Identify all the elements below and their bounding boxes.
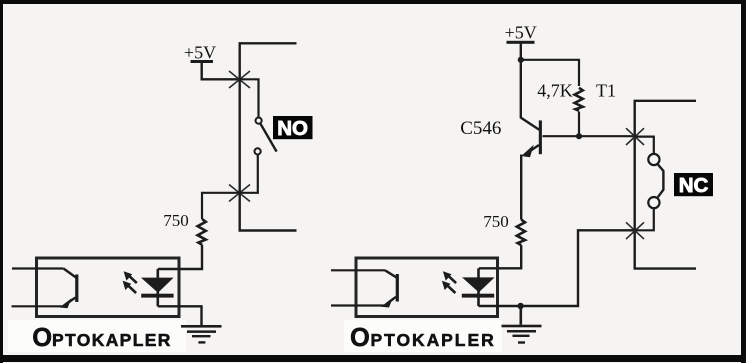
svg-text:O: O bbox=[32, 324, 52, 352]
wire node to resistor (left) bbox=[202, 193, 239, 219]
svg-text:+5V: +5V bbox=[184, 43, 216, 63]
optocoupler U1 package (left) bbox=[37, 258, 180, 317]
junction dot ground node (right) bbox=[517, 303, 523, 309]
resistor R1 value 750 bbox=[163, 211, 206, 245]
wire +5V stem (right) bbox=[520, 44, 522, 60]
ground (left) bbox=[181, 325, 222, 344]
transistor Q1 C546 bbox=[460, 118, 542, 158]
wire switch branch top (left) bbox=[239, 79, 259, 117]
light arrows (right U2) bbox=[442, 271, 456, 293]
phototransistor (left U1) bbox=[60, 269, 79, 309]
optocoupler U2 package (right) bbox=[356, 258, 498, 317]
wire resistor to LED anode (left) bbox=[158, 245, 202, 269]
wire emitter lead (right U2) bbox=[331, 304, 385, 306]
label OPTOKAPLER (left) bbox=[32, 324, 172, 352]
svg-text:PTOKAPLER: PTOKAPLER bbox=[52, 330, 172, 350]
resistor R3 value 750 (right) bbox=[483, 212, 525, 245]
wire +5V stem to node (left) bbox=[202, 63, 239, 80]
svg-text:4,7K: 4,7K bbox=[537, 81, 573, 101]
light arrows (left U1) bbox=[123, 271, 137, 293]
svg-text:O: O bbox=[350, 324, 370, 352]
wire emitter to resistor (right) bbox=[520, 155, 522, 220]
phototransistor (right U2) bbox=[381, 270, 399, 307]
wire collector lead (right U2) bbox=[331, 269, 385, 271]
junction X2 (right) bbox=[626, 222, 644, 239]
svg-text:C546: C546 bbox=[460, 118, 501, 139]
wire +5V to collector bbox=[520, 60, 522, 119]
ground (right) bbox=[502, 306, 542, 344]
wire LED cathode to ground (left) bbox=[158, 306, 202, 325]
label NO bbox=[273, 116, 313, 140]
wire ground node to relay return bbox=[521, 230, 635, 306]
wire NC branch bottom bbox=[635, 208, 654, 230]
wire top output (left) bbox=[240, 43, 297, 230]
power +5V (right) bbox=[505, 23, 537, 44]
label OPTOKAPLER (right) bbox=[350, 324, 496, 352]
junction dot base node bbox=[576, 133, 582, 139]
wire LED cathode to ground node (right) bbox=[479, 305, 521, 307]
wire base to relay node bbox=[543, 135, 635, 137]
junction X1 (right) bbox=[626, 128, 644, 145]
svg-text:PTOKAPLER: PTOKAPLER bbox=[371, 330, 496, 350]
junction X1 (left) bbox=[229, 71, 250, 88]
wire supply node to resistor 4,7K bbox=[521, 60, 579, 86]
junction dot supply node (right) bbox=[518, 57, 524, 63]
switch S2 (NC contact) bbox=[648, 154, 663, 208]
wire collector lead (left U1) bbox=[12, 267, 64, 269]
wire resistor to LED anode (right) bbox=[479, 245, 521, 268]
svg-text:750: 750 bbox=[483, 212, 509, 231]
wire emitter lead (left U1) bbox=[12, 305, 64, 307]
svg-text:NC: NC bbox=[679, 174, 709, 197]
LED (left U1) bbox=[141, 269, 174, 306]
wire NC branch top bbox=[635, 137, 654, 154]
switch S1 (NO contact) bbox=[255, 118, 277, 155]
svg-text:750: 750 bbox=[163, 211, 189, 230]
junction X2 (left) bbox=[229, 185, 250, 202]
label T1 bbox=[596, 81, 616, 101]
svg-text:T1: T1 bbox=[596, 81, 616, 101]
resistor R2 value 4,7K bbox=[537, 81, 583, 111]
LED (right U2) bbox=[462, 268, 495, 306]
power +5V (left) bbox=[184, 43, 216, 64]
wire resistor to base node bbox=[578, 112, 580, 137]
wire relay frame (right) bbox=[635, 101, 696, 269]
svg-text:NO: NO bbox=[277, 117, 308, 140]
svg-text:+5V: +5V bbox=[505, 23, 537, 43]
wire switch branch bottom (left) bbox=[239, 155, 258, 193]
label NC bbox=[674, 173, 713, 197]
